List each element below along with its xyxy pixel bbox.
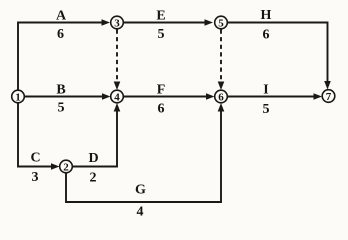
svg-text:6: 6 (57, 27, 64, 42)
label activity H (261, 8, 272, 23)
label activity I (263, 83, 268, 98)
wire F: node4 right to node6 (124, 96, 210, 98)
arrowhead into node 3 (102, 19, 111, 26)
wire B: node1 right to node4 (25, 96, 106, 98)
wire E: node3 right to node5 (124, 22, 209, 24)
node 5 (215, 16, 228, 29)
node 6 (215, 90, 228, 103)
svg-text:7: 7 (326, 91, 332, 103)
label duration 5 of B (58, 100, 65, 115)
label activity C (30, 151, 40, 166)
node 4 (111, 90, 124, 103)
arrowhead into node 7 left (314, 93, 323, 100)
arrowhead into node 4 bottom (114, 103, 121, 112)
wire H: node5 right then down to node7 (228, 23, 328, 85)
label activity G (135, 183, 146, 198)
svg-text:6: 6 (218, 91, 224, 103)
label activity D (88, 151, 98, 166)
svg-text:E: E (156, 9, 165, 24)
svg-text:H: H (261, 8, 272, 23)
svg-text:A: A (56, 9, 67, 24)
label duration 6 of H (263, 27, 270, 42)
svg-text:3: 3 (32, 170, 39, 185)
svg-text:1: 1 (15, 91, 21, 103)
svg-text:4: 4 (114, 91, 120, 103)
node 7 number (326, 91, 332, 103)
wire D: node2 right then up to node4 (73, 108, 118, 167)
svg-text:B: B (56, 83, 65, 98)
dummy dashed arrow node3 to node4 (116, 30, 118, 86)
arrowhead into node 7 top (324, 81, 331, 90)
node 5 number (218, 17, 224, 29)
svg-text:G: G (135, 183, 146, 198)
svg-text:6: 6 (263, 27, 270, 42)
svg-text:5: 5 (263, 102, 270, 117)
arrowhead into node 4 left (102, 93, 111, 100)
svg-text:D: D (88, 151, 98, 166)
arrowhead into node 2 left (51, 163, 60, 170)
wire I: node6 right to node7 (228, 96, 318, 98)
svg-text:I: I (263, 83, 268, 98)
label duration 4 of G (137, 205, 144, 220)
label activity F (157, 83, 166, 98)
arrowhead dashed into node 6 top (218, 82, 225, 91)
node 1 number (15, 91, 21, 103)
wire A: node1 up then right to node3 (18, 23, 105, 91)
arrowhead into node 6 left (206, 93, 215, 100)
label activity A (56, 9, 67, 24)
label duration 6 of A (57, 27, 64, 42)
label duration 5 of I (263, 102, 270, 117)
node 3 number (114, 17, 120, 29)
svg-text:2: 2 (63, 161, 69, 173)
arrowhead into node 5 (205, 19, 214, 26)
svg-text:4: 4 (137, 205, 144, 220)
dummy dashed arrow node5 to node6 (220, 30, 222, 86)
label duration 5 of E (158, 27, 165, 42)
node 2 (60, 160, 73, 173)
svg-text:6: 6 (158, 101, 165, 116)
svg-text:5: 5 (218, 17, 224, 29)
wire C: node1 down then right to node2 (18, 103, 54, 167)
label activity B (56, 83, 65, 98)
arrowhead dashed into node 4 top (114, 82, 121, 91)
label duration 3 of C (32, 170, 39, 185)
node 1 (12, 90, 25, 103)
svg-text:F: F (157, 83, 166, 98)
svg-text:3: 3 (114, 17, 120, 29)
svg-text:C: C (30, 151, 40, 166)
arrowhead into node 6 bottom (218, 103, 225, 112)
node 7 (322, 90, 335, 103)
node 2 number (63, 161, 69, 173)
node 4 number (114, 91, 120, 103)
svg-text:2: 2 (90, 170, 97, 185)
node 3 (111, 16, 124, 29)
wire G: node2 down, right, up to node6 (66, 108, 221, 202)
label duration 6 of F (158, 101, 165, 116)
label activity E (156, 9, 165, 24)
svg-text:5: 5 (158, 27, 165, 42)
label duration 2 of D (90, 170, 97, 185)
svg-text:5: 5 (58, 100, 65, 115)
node 6 number (218, 91, 224, 103)
